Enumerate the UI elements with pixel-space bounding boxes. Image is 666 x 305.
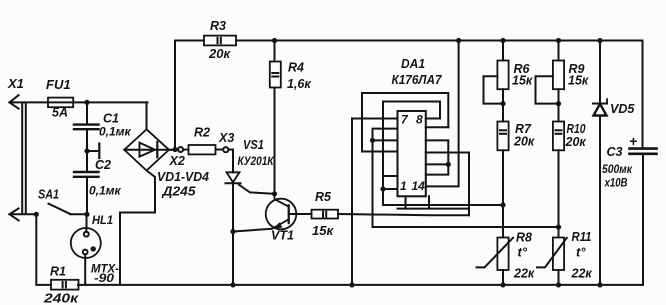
chassis stub bbox=[87, 144, 99, 159]
svg-text:15к: 15к bbox=[312, 223, 334, 238]
wire R4 to collector node bbox=[274, 88, 276, 194]
svg-text:t°: t° bbox=[576, 245, 586, 260]
wire C3 down to rail corner bbox=[642, 154, 644, 285]
resistor R1 bbox=[51, 280, 79, 290]
wire HL1 node down to lamp bbox=[86, 214, 88, 227]
wire VD5 down to rail bbox=[599, 116, 601, 285]
node rail-VS1 bbox=[230, 282, 235, 287]
wire emitter to VS1 cathode line bbox=[233, 229, 272, 232]
node ground riser on rail bbox=[349, 282, 354, 287]
svg-text:R10: R10 bbox=[567, 122, 586, 136]
wire top rail riser to R3 bbox=[175, 41, 204, 150]
wire left pin row 6 bbox=[383, 188, 398, 190]
wire VS1 cathode down to rail bbox=[232, 183, 234, 285]
bridge rectifier VD1-VD4 diamond bbox=[124, 129, 169, 170]
node R8 on rail bbox=[500, 282, 505, 287]
svg-text:DA1: DA1 bbox=[401, 57, 425, 71]
wire C1 to chassis node bbox=[86, 129, 88, 171]
wire left pin row 2 bbox=[373, 129, 559, 227]
svg-text:X2: X2 bbox=[169, 154, 185, 168]
resistor R10 bbox=[553, 122, 564, 151]
svg-text:VT1: VT1 bbox=[271, 229, 294, 243]
capacitor C1 bbox=[74, 125, 99, 130]
wire left pin row 5 with loop2 bbox=[383, 102, 440, 206]
wire right pin row 1 bbox=[426, 118, 440, 120]
potentiometer R6 bbox=[484, 61, 509, 104]
svg-text:240к: 240к bbox=[43, 291, 80, 305]
transistor VT1 bbox=[266, 194, 297, 230]
wire R2 to X3 bbox=[216, 149, 234, 151]
wire rail to R9 bbox=[558, 41, 560, 61]
svg-text:R11: R11 bbox=[572, 230, 592, 244]
fuse FU1 bbox=[48, 98, 73, 108]
svg-text:15к: 15к bbox=[512, 73, 533, 87]
svg-text:х10В: х10В bbox=[604, 176, 628, 190]
wire R10 down to R11 bbox=[558, 150, 560, 237]
svg-text:HL1: HL1 bbox=[92, 213, 113, 227]
node SA1 contact bbox=[34, 212, 39, 217]
svg-text:1: 1 bbox=[400, 179, 407, 193]
svg-text:R4: R4 bbox=[288, 60, 304, 74]
svg-text:1,6к: 1,6к bbox=[287, 77, 311, 91]
svg-text:8: 8 bbox=[416, 113, 423, 127]
node R6-R7 junction bbox=[500, 101, 505, 106]
svg-text:R8: R8 bbox=[516, 231, 532, 245]
terminal X2 circle bbox=[178, 147, 183, 152]
wire left pin row 3 bbox=[373, 139, 398, 141]
wire right pin row 3 with drop bbox=[426, 140, 449, 174]
neon lamp HL1 bbox=[71, 228, 101, 258]
wire X3 down to VS1 bbox=[232, 150, 234, 173]
svg-text:R5: R5 bbox=[315, 190, 332, 204]
svg-text:500мк: 500мк bbox=[602, 162, 633, 176]
wire R8 to rail bbox=[502, 270, 504, 285]
top rail wire bbox=[236, 40, 643, 42]
wire R5 to riser bbox=[338, 153, 469, 216]
svg-text:C1: C1 bbox=[103, 112, 119, 126]
terminal X3 circle bbox=[223, 147, 228, 152]
capacitor C3 electrolytic bbox=[630, 149, 657, 154]
wire rail to VD5 bbox=[599, 41, 601, 104]
svg-text:FU1: FU1 bbox=[46, 77, 71, 92]
svg-text:20к: 20к bbox=[513, 135, 535, 149]
node R4 top on rail bbox=[272, 38, 277, 43]
svg-text:0,1мк: 0,1мк bbox=[99, 125, 132, 139]
resistor R4 bbox=[270, 62, 281, 88]
wire bridge right vertex to X2 bbox=[169, 149, 189, 151]
bottom rail wire bbox=[78, 284, 643, 286]
svg-text:5A: 5A bbox=[52, 106, 68, 120]
node collector junction bbox=[272, 191, 277, 196]
wire R9 to R10 bbox=[558, 89, 560, 121]
svg-text:VD1-VD4: VD1-VD4 bbox=[157, 170, 209, 184]
wire R6 to R7 bbox=[502, 89, 504, 121]
bridge chord wire bbox=[124, 149, 169, 151]
svg-text:22к: 22к bbox=[571, 267, 593, 281]
svg-text:X3: X3 bbox=[218, 131, 234, 145]
svg-text:14: 14 bbox=[412, 179, 426, 193]
node bottom-left pin junction bbox=[380, 186, 385, 191]
wire bridge bottom to rail bbox=[120, 171, 155, 285]
svg-text:+: + bbox=[629, 133, 637, 149]
wire R7 down to R8 bbox=[502, 150, 504, 237]
node SA1-HL1 junction bbox=[84, 212, 89, 217]
wire right pin row 5 to R5 riser bbox=[426, 152, 469, 154]
svg-text:К176ЛА7: К176ЛА7 bbox=[392, 73, 443, 87]
node VD5 on rail bbox=[597, 282, 602, 287]
resistor R2 bbox=[189, 145, 216, 154]
node R10-R11 junction line end bbox=[556, 224, 561, 229]
connector X1 bottom prong arrow bbox=[10, 208, 19, 220]
node R9 top on rail bbox=[556, 38, 561, 43]
wire pin7 row to ground riser bbox=[352, 119, 398, 285]
svg-text:VS1: VS1 bbox=[243, 138, 264, 152]
resistor R7 bbox=[497, 122, 508, 151]
wire rail to R6 bbox=[502, 41, 504, 61]
wire left pin row 4 with loop1 bbox=[362, 93, 448, 152]
svg-text:VD5: VD5 bbox=[610, 102, 635, 116]
resistor R3 bbox=[204, 36, 236, 46]
wire bottom U bracket bbox=[406, 196, 430, 208]
svg-text:C3: C3 bbox=[607, 145, 623, 159]
thyristor VS1 bbox=[226, 172, 241, 183]
wire X1 top to fuse and bridge corner bbox=[10, 101, 148, 103]
node emitter-cathode junction bbox=[230, 229, 235, 234]
wire right pin row 6 bbox=[426, 163, 449, 165]
node X2 bbox=[172, 147, 177, 152]
svg-text:t°: t° bbox=[518, 245, 528, 260]
wire right pin row 2 bbox=[426, 126, 449, 128]
wire blade to HL1 node bbox=[70, 213, 87, 215]
svg-text:15к: 15к bbox=[568, 73, 589, 87]
svg-text:SA1: SA1 bbox=[38, 187, 59, 202]
svg-text:Д245: Д245 bbox=[161, 185, 196, 199]
node loop1 end bbox=[446, 162, 451, 167]
wire rail to R4 bbox=[274, 41, 276, 62]
thermistor R11 bbox=[537, 238, 567, 271]
wire R11 to rail bbox=[558, 270, 560, 285]
potentiometer R9 bbox=[536, 61, 565, 104]
node under-IC to divider bbox=[500, 202, 505, 207]
wire under IC to R7-R8 node bbox=[383, 204, 503, 206]
node fuse-C1 junction bbox=[84, 100, 89, 105]
capacitor C2 bbox=[74, 172, 99, 177]
node R11 on rail bbox=[556, 282, 561, 287]
connector X1 top prong arrow bbox=[10, 95, 19, 108]
node on left feedback riser bbox=[370, 138, 375, 143]
svg-text:20к: 20к bbox=[565, 135, 587, 149]
node R6 top on rail bbox=[500, 38, 505, 43]
switch SA1 blade bbox=[49, 204, 71, 214]
resistor R5 bbox=[312, 210, 339, 219]
svg-text:22к: 22к bbox=[513, 267, 535, 281]
diode inside bridge bbox=[140, 142, 158, 157]
svg-text:R2: R2 bbox=[194, 126, 210, 140]
wire down to bridge top bbox=[146, 102, 148, 129]
wire right pin row 7 Vcc riser bbox=[426, 41, 459, 187]
node Vcc riser on rail bbox=[456, 38, 461, 43]
wire C1 column upper bbox=[86, 102, 88, 123]
wire C2 to SA1 node bbox=[86, 177, 88, 215]
lamp HL1 lead from rail bbox=[84, 258, 86, 285]
wire top rail right corner down to C3 bbox=[642, 41, 644, 148]
node VD5 top on rail bbox=[597, 38, 602, 43]
svg-text:0,1мк: 0,1мк bbox=[89, 184, 122, 198]
svg-text:R3: R3 bbox=[210, 19, 226, 33]
op-amp/IC DA1 body bbox=[398, 111, 426, 196]
svg-text:X1: X1 bbox=[7, 76, 24, 91]
zener diode VD5 bbox=[593, 99, 607, 115]
svg-text:R1: R1 bbox=[50, 265, 66, 279]
thermistor R8 bbox=[477, 238, 514, 271]
X1 plug double line bbox=[22, 103, 26, 214]
wire base to R5 bbox=[289, 213, 312, 215]
wire VS1 gate bbox=[239, 185, 275, 194]
node chassis tap bbox=[84, 148, 89, 153]
wire under IC second row bbox=[398, 208, 470, 210]
svg-text:-90: -90 bbox=[94, 271, 114, 285]
wire X1 bottom to switch bbox=[10, 213, 37, 215]
svg-text:20к: 20к bbox=[208, 46, 231, 61]
svg-text:C2: C2 bbox=[95, 158, 111, 172]
svg-text:КУ201К: КУ201К bbox=[238, 156, 275, 168]
node R9-R10 junction bbox=[556, 101, 561, 106]
wire SA1 down to R1 bbox=[36, 214, 51, 285]
